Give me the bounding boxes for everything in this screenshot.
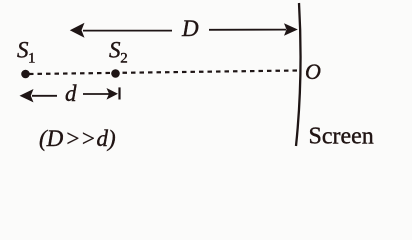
svg-text:d: d	[65, 81, 77, 106]
svg-text:O: O	[305, 59, 321, 84]
svg-text:1: 1	[28, 51, 36, 67]
svg-text:(D>>d): (D>>d)	[39, 126, 116, 151]
svg-text:2: 2	[120, 51, 128, 67]
svg-text:Screen: Screen	[309, 124, 374, 150]
svg-text:S: S	[109, 38, 121, 63]
svg-text:D: D	[181, 16, 199, 41]
